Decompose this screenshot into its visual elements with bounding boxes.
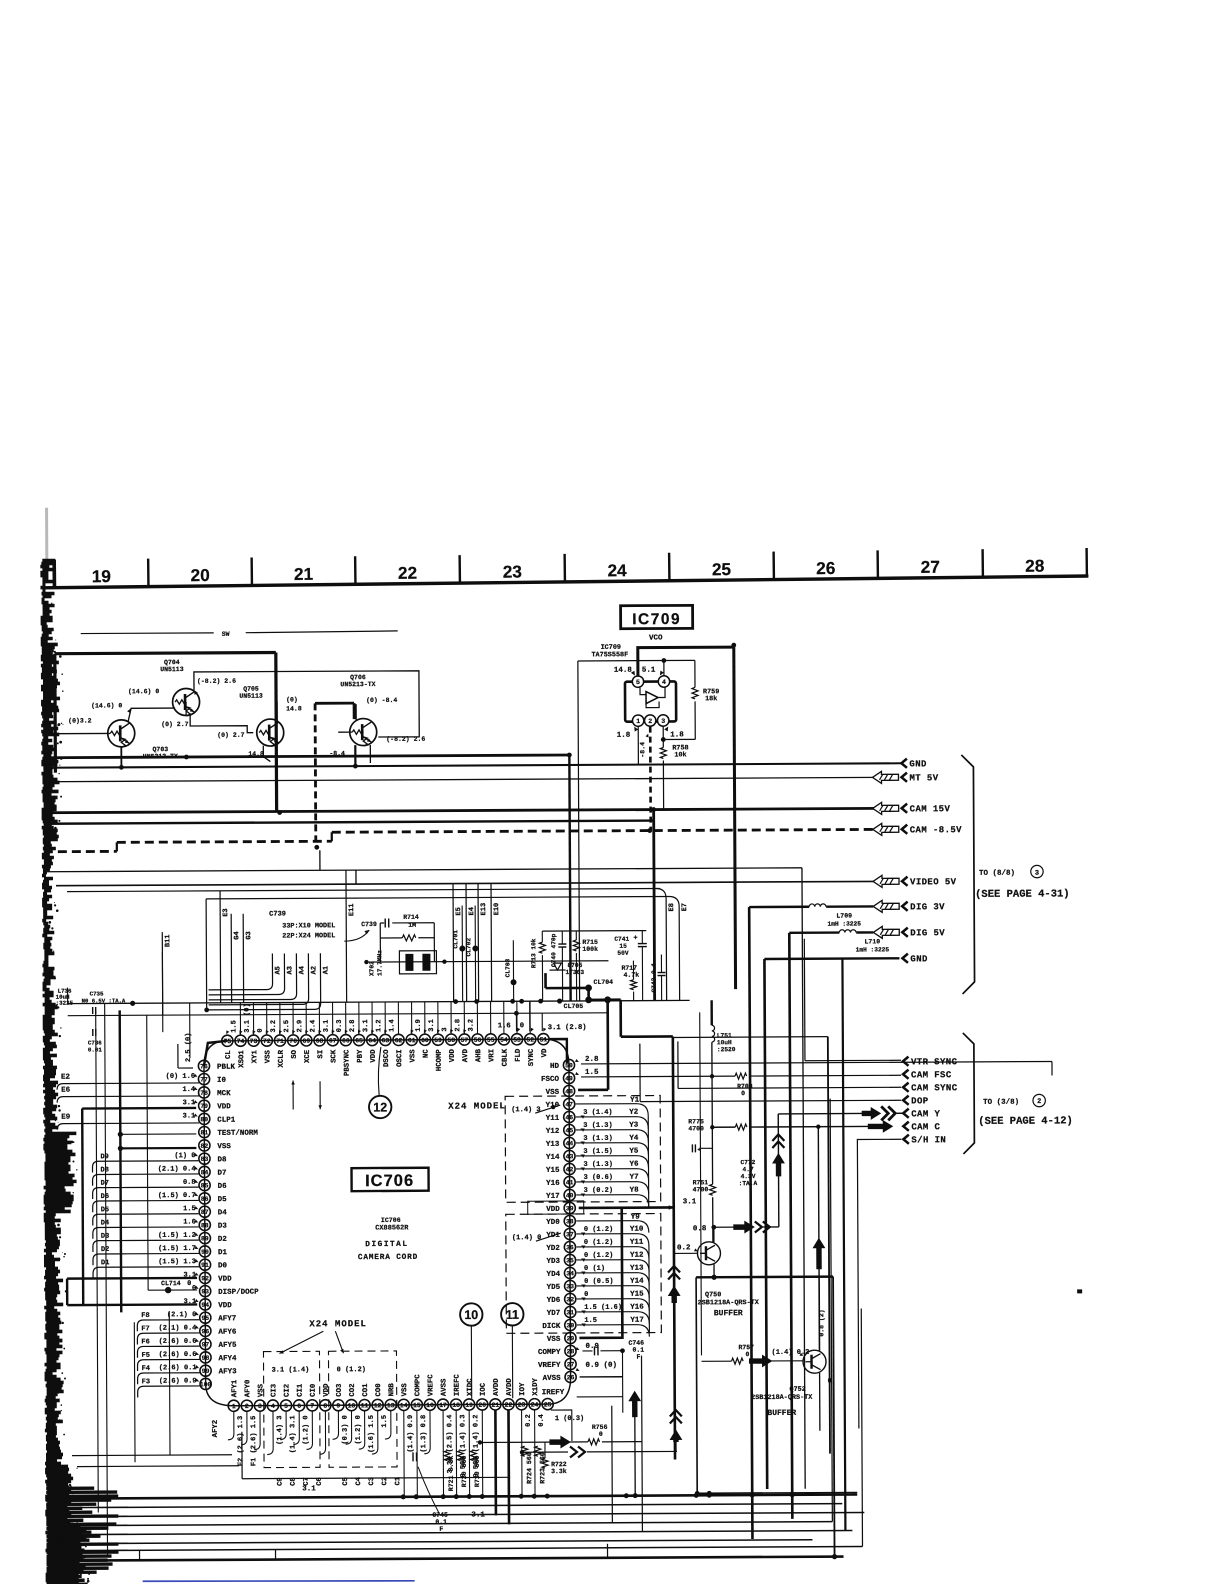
svg-text:0 (1.2): 0 (1.2) — [337, 1366, 366, 1374]
svg-text:22P:X24 MODEL: 22P:X24 MODEL — [282, 932, 335, 940]
svg-text:R720 560: R720 560 — [461, 1455, 468, 1487]
svg-text:81: 81 — [200, 1129, 208, 1136]
svg-text:D8: D8 — [217, 1156, 227, 1164]
svg-text:9: 9 — [336, 1403, 340, 1410]
svg-text:YD2: YD2 — [546, 1245, 560, 1253]
svg-text:23: 23 — [518, 1402, 526, 1409]
svg-text:TO (8/8): TO (8/8) — [979, 870, 1015, 878]
svg-text:F: F — [439, 1526, 443, 1533]
svg-text:28: 28 — [1025, 555, 1045, 575]
svg-text:TO (3/8): TO (3/8) — [983, 1099, 1019, 1107]
svg-text:(1.5) 0.7: (1.5) 0.7 — [158, 1192, 196, 1200]
svg-text:CAM -8.5V: CAM -8.5V — [910, 825, 962, 835]
svg-text:IOC: IOC — [480, 1382, 488, 1396]
svg-text:1.4: 1.4 — [388, 1019, 396, 1032]
svg-text:0: 0 — [192, 1285, 196, 1293]
svg-text:Q706: Q706 — [350, 674, 366, 681]
svg-text:X24 MODEL: X24 MODEL — [309, 1319, 367, 1329]
svg-text:Y16: Y16 — [546, 1180, 560, 1188]
svg-text:27: 27 — [567, 1361, 575, 1368]
svg-text:A1: A1 — [322, 966, 330, 974]
svg-text:VDD: VDD — [217, 1103, 231, 1111]
svg-text:23: 23 — [503, 561, 522, 581]
svg-text:88: 88 — [201, 1222, 209, 1229]
svg-text:50V: 50V — [617, 950, 628, 957]
svg-text:Y13: Y13 — [546, 1141, 560, 1149]
svg-text:R714: R714 — [403, 914, 419, 921]
svg-text:0: 0 — [745, 1351, 749, 1358]
svg-text:C741: C741 — [614, 936, 629, 943]
svg-text:C742 0.1: C742 0.1 — [650, 963, 657, 993]
svg-text:0.8: 0.8 — [183, 1179, 196, 1187]
svg-text:8705: 8705 — [567, 962, 582, 969]
svg-text:14.8: 14.8 — [614, 667, 633, 675]
svg-text:YD0: YD0 — [546, 1219, 560, 1227]
svg-text:58: 58 — [447, 1037, 455, 1044]
svg-text:X24 MODEL: X24 MODEL — [448, 1101, 506, 1111]
svg-text:0.9 (0): 0.9 (0) — [586, 1362, 618, 1370]
svg-text:C772: C772 — [740, 1159, 755, 1166]
svg-text:D6: D6 — [218, 1183, 228, 1191]
svg-text:3.1: 3.1 — [323, 1020, 331, 1033]
svg-text:4.7: 4.7 — [743, 1166, 754, 1173]
svg-text:F1 (2.6) 1.5: F1 (2.6) 1.5 — [250, 1416, 258, 1466]
svg-text:3.1: 3.1 — [183, 1099, 196, 1107]
svg-text:36: 36 — [566, 1244, 574, 1251]
svg-text:YD7: YD7 — [547, 1310, 561, 1318]
svg-text:Y3: Y3 — [629, 1122, 639, 1130]
svg-text:CO2: CO2 — [349, 1383, 357, 1396]
svg-text:(1.4) 0.9: (1.4) 0.9 — [407, 1415, 415, 1453]
svg-text:BUFFER: BUFFER — [714, 1309, 743, 1318]
svg-text:CBLK: CBLK — [502, 1048, 510, 1066]
svg-text:(0) 1.6: (0) 1.6 — [166, 1073, 195, 1081]
svg-text:Q750: Q750 — [705, 1291, 721, 1299]
svg-text:X702: X702 — [368, 961, 375, 976]
svg-text:75: 75 — [223, 1038, 231, 1045]
svg-text:73: 73 — [250, 1038, 258, 1045]
svg-text:(2.1) 0.4: (2.1) 0.4 — [158, 1165, 196, 1173]
svg-text:VIDEO 5V: VIDEO 5V — [910, 877, 957, 887]
svg-text:5: 5 — [284, 1403, 288, 1410]
svg-text:3.3k: 3.3k — [551, 1468, 567, 1475]
svg-text:OSCI: OSCI — [396, 1049, 404, 1067]
svg-text:XCE: XCE — [304, 1049, 312, 1063]
svg-text:SW: SW — [222, 631, 230, 638]
svg-text:(0): (0) — [286, 696, 298, 703]
svg-text:1.6: 1.6 — [183, 1218, 196, 1226]
svg-text:Y4: Y4 — [629, 1135, 639, 1143]
svg-text:AVSS: AVSS — [543, 1375, 562, 1383]
svg-text:G3: G3 — [245, 931, 253, 939]
svg-text:33P:X10 MODEL: 33P:X10 MODEL — [282, 922, 335, 930]
svg-text:98: 98 — [202, 1355, 210, 1362]
svg-text:DIG 5V: DIG 5V — [910, 928, 945, 938]
svg-text:C740 470p: C740 470p — [550, 933, 557, 967]
svg-text:R724 560: R724 560 — [526, 1452, 533, 1484]
svg-text:VDD: VDD — [323, 1383, 331, 1397]
svg-text:Y5: Y5 — [629, 1148, 639, 1156]
svg-text:10k: 10k — [674, 751, 686, 759]
svg-text:3.1 (1.4): 3.1 (1.4) — [272, 1366, 310, 1374]
svg-text:CL: CL — [225, 1050, 233, 1059]
svg-text:F5: F5 — [141, 1352, 149, 1360]
svg-text:D8: D8 — [100, 1166, 108, 1174]
svg-text:87: 87 — [201, 1209, 209, 1216]
svg-text:2.5 (0): 2.5 (0) — [185, 1033, 193, 1062]
svg-text:84: 84 — [201, 1169, 209, 1176]
svg-text:18: 18 — [452, 1402, 460, 1409]
svg-text:Y2: Y2 — [629, 1109, 639, 1117]
svg-text:YD3: YD3 — [546, 1258, 560, 1266]
svg-text:VSS: VSS — [217, 1143, 231, 1151]
svg-text:66: 66 — [342, 1037, 350, 1044]
svg-text:0.2: 0.2 — [525, 1414, 533, 1427]
svg-text:25: 25 — [544, 1401, 552, 1408]
svg-text:G4: G4 — [233, 931, 241, 939]
svg-text:91: 91 — [201, 1262, 209, 1269]
svg-text:SCK: SCK — [330, 1049, 338, 1063]
svg-text:41: 41 — [566, 1179, 574, 1186]
svg-text:Y9: Y9 — [631, 1214, 641, 1222]
svg-text:COMPY: COMPY — [538, 1349, 561, 1357]
svg-text:26: 26 — [816, 558, 835, 578]
svg-text:R713 10k: R713 10k — [530, 938, 537, 968]
svg-text:R717: R717 — [621, 965, 637, 972]
svg-text:PBLK: PBLK — [217, 1064, 236, 1072]
svg-text:19: 19 — [465, 1402, 473, 1409]
svg-text:IOY: IOY — [519, 1382, 527, 1396]
svg-text:31: 31 — [566, 1309, 574, 1316]
svg-text:(0) 2.7: (0) 2.7 — [217, 732, 244, 739]
svg-text:(1.2) 0: (1.2) 0 — [302, 1415, 310, 1444]
svg-text:Q705: Q705 — [243, 686, 259, 693]
svg-text:E13: E13 — [480, 903, 488, 916]
svg-text:19: 19 — [92, 566, 111, 586]
svg-text:Y14: Y14 — [630, 1278, 644, 1286]
svg-text:VREFY: VREFY — [538, 1362, 561, 1370]
svg-text:1M: 1M — [408, 922, 416, 929]
svg-text:14.8: 14.8 — [286, 705, 302, 712]
svg-text::2520: :2520 — [717, 1046, 736, 1053]
svg-text:38: 38 — [566, 1218, 574, 1225]
svg-text:C746: C746 — [628, 1340, 644, 1347]
svg-text:I0: I0 — [217, 1077, 227, 1085]
svg-text:3.1: 3.1 — [428, 1019, 436, 1032]
svg-text:3.1 (2.8): 3.1 (2.8) — [548, 1024, 587, 1032]
svg-text:E9: E9 — [61, 1114, 71, 1122]
svg-text:D9: D9 — [100, 1153, 108, 1161]
svg-text:(0) -8.4: (0) -8.4 — [366, 697, 397, 704]
svg-text:85: 85 — [201, 1182, 209, 1189]
svg-text:DSCO: DSCO — [383, 1049, 391, 1067]
svg-text:(2.1) 0.4: (2.1) 0.4 — [159, 1324, 197, 1332]
svg-text:62: 62 — [395, 1037, 403, 1044]
svg-text:0 (1.2): 0 (1.2) — [584, 1226, 613, 1234]
svg-text:R722: R722 — [551, 1461, 567, 1468]
svg-text:(14.6) 0: (14.6) 0 — [91, 702, 122, 709]
svg-text:Y14: Y14 — [546, 1154, 560, 1162]
svg-text:E10: E10 — [493, 903, 501, 916]
svg-text:44: 44 — [566, 1140, 574, 1147]
svg-text:(2.6) 0.6: (2.6) 0.6 — [159, 1351, 197, 1359]
svg-text:E3: E3 — [222, 908, 230, 916]
svg-text:1.9: 1.9 — [415, 1019, 423, 1032]
svg-text:0.8: 0.8 — [693, 1225, 707, 1233]
svg-text:2.8: 2.8 — [585, 1056, 599, 1064]
svg-text:18k: 18k — [705, 695, 717, 703]
svg-text:5: 5 — [636, 679, 640, 686]
svg-text:GND: GND — [909, 759, 927, 769]
svg-text:R708: R708 — [737, 1083, 753, 1090]
svg-text:UN5113: UN5113 — [239, 693, 263, 700]
svg-text:A3: A3 — [286, 966, 294, 974]
svg-text:XIDC: XIDC — [467, 1378, 475, 1396]
svg-text:2.8: 2.8 — [349, 1020, 357, 1033]
svg-text:CO3: CO3 — [336, 1383, 344, 1397]
svg-text:1.8: 1.8 — [670, 731, 684, 739]
svg-text:3.1: 3.1 — [471, 1511, 485, 1519]
svg-text:34: 34 — [566, 1270, 574, 1277]
svg-text:F3: F3 — [142, 1378, 150, 1386]
svg-text:2.9: 2.9 — [296, 1020, 304, 1033]
svg-text:E8: E8 — [668, 903, 676, 911]
svg-text:(1.4) 3.1: (1.4) 3.1 — [289, 1415, 297, 1453]
svg-text:95: 95 — [201, 1315, 209, 1322]
svg-text:IC706: IC706 — [365, 1172, 414, 1190]
svg-text:DOP: DOP — [911, 1096, 929, 1106]
svg-text:30: 30 — [566, 1322, 574, 1329]
svg-text:79: 79 — [200, 1103, 208, 1110]
svg-text:AFY1: AFY1 — [231, 1379, 239, 1397]
svg-text:74: 74 — [237, 1038, 245, 1045]
svg-text:4: 4 — [271, 1403, 275, 1410]
svg-text:1.4: 1.4 — [182, 1086, 195, 1094]
svg-text:CL714: CL714 — [161, 1280, 181, 1287]
svg-text:22: 22 — [398, 563, 417, 583]
svg-text:0 (0.5): 0 (0.5) — [584, 1278, 613, 1286]
svg-text:IC709: IC709 — [632, 611, 681, 628]
svg-text:CI3: CI3 — [270, 1383, 278, 1397]
svg-text:20: 20 — [190, 565, 209, 585]
svg-text:61: 61 — [408, 1037, 416, 1044]
svg-text:A4: A4 — [298, 966, 306, 974]
svg-text:1.2: 1.2 — [375, 1019, 383, 1032]
svg-text:1mH :3225: 1mH :3225 — [828, 920, 862, 927]
svg-text:DIGITAL: DIGITAL — [365, 1241, 408, 1249]
svg-text:0: 0 — [257, 1028, 265, 1032]
svg-text:43: 43 — [566, 1153, 574, 1160]
svg-text:VSS: VSS — [547, 1336, 561, 1344]
svg-text:CL703: CL703 — [504, 958, 511, 977]
svg-text:R721 3.3k: R721 3.3k — [448, 1456, 455, 1492]
svg-text:Y6: Y6 — [629, 1161, 639, 1169]
svg-text:PBSYNC: PBSYNC — [343, 1049, 351, 1076]
svg-text:29: 29 — [567, 1335, 575, 1342]
svg-text:TEST/NORM: TEST/NORM — [217, 1130, 258, 1138]
svg-text:D6: D6 — [101, 1193, 109, 1201]
svg-text:2.8: 2.8 — [454, 1019, 462, 1032]
svg-text:IREFY: IREFY — [542, 1389, 565, 1397]
svg-text:20: 20 — [478, 1402, 486, 1409]
svg-text:AVD: AVD — [462, 1048, 470, 1062]
svg-text:Q752: Q752 — [789, 1386, 805, 1394]
svg-text:2.5: 2.5 — [283, 1020, 291, 1033]
svg-text:TA75S558F: TA75S558F — [591, 651, 628, 659]
svg-text:Q704: Q704 — [164, 659, 180, 666]
svg-text:26: 26 — [567, 1374, 575, 1381]
svg-text:D1: D1 — [218, 1249, 228, 1257]
svg-text:C736: C736 — [88, 1039, 102, 1046]
svg-text:VD: VD — [541, 1048, 549, 1057]
svg-text:(0)3.2: (0)3.2 — [68, 717, 92, 724]
svg-text:+: + — [633, 935, 637, 943]
svg-text:15: 15 — [619, 943, 627, 950]
svg-text:COMPC: COMPC — [414, 1374, 422, 1397]
svg-text:48: 48 — [565, 1088, 573, 1095]
svg-text:(1.3) 0.8: (1.3) 0.8 — [420, 1415, 428, 1453]
svg-text:Y15: Y15 — [630, 1291, 644, 1299]
svg-text:(0) 2.7: (0) 2.7 — [161, 721, 188, 728]
svg-text:(2.6) 0.9: (2.6) 0.9 — [159, 1377, 197, 1385]
svg-text:S/H IN: S/H IN — [911, 1135, 946, 1145]
svg-text:Y13: Y13 — [630, 1265, 644, 1273]
svg-text:22: 22 — [505, 1402, 513, 1409]
svg-text:D7: D7 — [218, 1170, 227, 1178]
svg-text:1.5 (1.6): 1.5 (1.6) — [584, 1304, 622, 1312]
svg-text:0 (1): 0 (1) — [584, 1265, 605, 1273]
svg-text:40: 40 — [566, 1192, 574, 1199]
svg-text:R715: R715 — [582, 939, 598, 946]
svg-text:90: 90 — [201, 1249, 209, 1256]
svg-text:AVSS: AVSS — [441, 1378, 449, 1396]
svg-text:3.1: 3.1 — [683, 1198, 697, 1206]
svg-text:VSS: VSS — [401, 1383, 409, 1397]
svg-text:56: 56 — [474, 1037, 482, 1044]
svg-text:21: 21 — [294, 564, 314, 584]
svg-text:17: 17 — [439, 1402, 447, 1409]
svg-text:B11: B11 — [164, 934, 172, 947]
svg-text:F4: F4 — [142, 1365, 150, 1373]
svg-text:(1) 0: (1) 0 — [174, 1152, 195, 1160]
svg-text:(2.6) 0.6: (2.6) 0.6 — [159, 1338, 197, 1346]
svg-text:D5: D5 — [218, 1196, 228, 1204]
svg-text:99: 99 — [202, 1368, 210, 1375]
svg-text:2: 2 — [1037, 1098, 1041, 1106]
svg-text:63: 63 — [381, 1037, 389, 1044]
svg-text:3: 3 — [258, 1403, 262, 1410]
svg-text:E6: E6 — [61, 1087, 71, 1095]
svg-text:SYNC: SYNC — [528, 1048, 536, 1066]
svg-text:13: 13 — [387, 1402, 395, 1409]
svg-text:42: 42 — [566, 1166, 574, 1173]
svg-text:Y16: Y16 — [630, 1304, 644, 1312]
svg-text:CO0: CO0 — [375, 1383, 383, 1396]
svg-text:CAM SYNC: CAM SYNC — [911, 1083, 958, 1093]
svg-text:80: 80 — [200, 1116, 208, 1123]
svg-text:0.1: 0.1 — [435, 1519, 447, 1526]
svg-text:1: 1 — [636, 718, 640, 725]
svg-text:VDD: VDD — [370, 1049, 378, 1063]
svg-text:CAM C: CAM C — [911, 1122, 940, 1132]
svg-text:YD6: YD6 — [547, 1297, 561, 1305]
svg-text:L751: L751 — [717, 1032, 732, 1039]
svg-text:L709: L709 — [836, 913, 852, 920]
svg-text:37: 37 — [566, 1231, 574, 1238]
svg-text:DICK: DICK — [542, 1323, 561, 1331]
svg-text:(SEE PAGE 4-31): (SEE PAGE 4-31) — [975, 888, 1070, 900]
svg-text:46: 46 — [565, 1114, 573, 1121]
svg-text:D2: D2 — [218, 1236, 228, 1244]
svg-text:VRI: VRI — [488, 1049, 496, 1062]
svg-text:1: 1 — [232, 1403, 236, 1410]
svg-text:1.5: 1.5 — [381, 1415, 389, 1428]
svg-text:CAM FSC: CAM FSC — [911, 1070, 952, 1080]
svg-text:FSCO: FSCO — [541, 1076, 560, 1084]
svg-text:3 (1.5): 3 (1.5) — [583, 1148, 612, 1156]
svg-text:(1.4) 3: (1.4) 3 — [276, 1416, 284, 1445]
svg-text:32: 32 — [566, 1296, 574, 1303]
svg-text:3.2: 3.2 — [270, 1020, 278, 1033]
svg-text:AFY5: AFY5 — [218, 1342, 237, 1350]
svg-text:F8: F8 — [141, 1312, 149, 1320]
svg-text:0.01: 0.01 — [88, 1046, 102, 1053]
svg-text:SO: SO — [291, 1049, 299, 1058]
svg-text:4: 4 — [662, 679, 666, 686]
svg-text:CX88562R: CX88562R — [375, 1224, 409, 1232]
svg-text:4700: 4700 — [688, 1125, 704, 1132]
svg-text:Y8: Y8 — [630, 1187, 640, 1195]
svg-text:(2.1) 0: (2.1) 0 — [167, 1311, 196, 1319]
svg-text:CL702: CL702 — [465, 938, 472, 957]
svg-text:UN5213-TX: UN5213-TX — [340, 681, 375, 688]
svg-text:VCO: VCO — [649, 635, 663, 643]
svg-text:(1.5) 1.7: (1.5) 1.7 — [158, 1245, 196, 1253]
svg-text:N0 6.5V :TA.A: N0 6.5V :TA.A — [82, 997, 126, 1004]
svg-text:D4: D4 — [101, 1219, 109, 1227]
svg-text:10: 10 — [348, 1402, 356, 1409]
svg-text:(-8.2) 2.6: (-8.2) 2.6 — [197, 678, 236, 685]
svg-text:21: 21 — [491, 1402, 499, 1409]
svg-text:59: 59 — [434, 1037, 442, 1044]
svg-text:Y11: Y11 — [546, 1115, 560, 1123]
svg-text:BUFFER: BUFFER — [767, 1409, 796, 1418]
svg-text:XSO1: XSO1 — [238, 1050, 246, 1068]
svg-text:(0.3) 0: (0.3) 0 — [342, 1415, 350, 1444]
svg-text:4.7k: 4.7k — [623, 972, 639, 979]
svg-text:1.5: 1.5 — [230, 1020, 238, 1033]
svg-text:CAM 15V: CAM 15V — [910, 804, 951, 814]
svg-text:SI: SI — [317, 1050, 325, 1059]
svg-text:39: 39 — [566, 1205, 574, 1212]
svg-text:A5: A5 — [274, 966, 282, 974]
svg-text:YD5: YD5 — [547, 1284, 561, 1292]
svg-text:A2: A2 — [310, 966, 318, 974]
svg-text:96: 96 — [202, 1328, 210, 1335]
svg-text:2: 2 — [648, 718, 652, 725]
svg-text:1 (0.3): 1 (0.3) — [555, 1415, 584, 1423]
svg-text:0: 0 — [520, 1022, 524, 1030]
svg-text:C735: C735 — [90, 990, 104, 997]
svg-text:R757: R757 — [738, 1344, 754, 1351]
svg-text:Y17: Y17 — [546, 1193, 560, 1201]
svg-text:VSS: VSS — [409, 1049, 417, 1063]
svg-text:-8.4: -8.4 — [639, 742, 646, 758]
svg-text:1.6: 1.6 — [498, 1022, 511, 1030]
svg-text:VDD: VDD — [449, 1048, 457, 1062]
svg-text:FLD: FLD — [515, 1048, 523, 1062]
svg-text:100: 100 — [200, 1381, 212, 1388]
